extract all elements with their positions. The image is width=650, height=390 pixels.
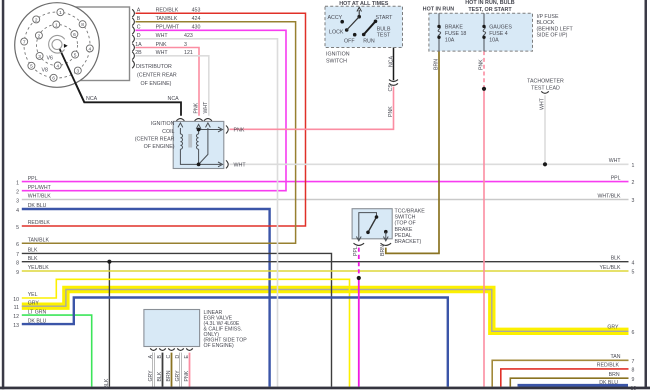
svg-text:5: 5 [74,53,77,59]
svg-text:423: 423 [184,33,193,39]
svg-text:START: START [376,15,394,21]
svg-text:4: 4 [16,208,19,214]
svg-text:(BEHIND LEFT: (BEHIND LEFT [537,26,574,32]
svg-text:HOT AT ALL TIMES: HOT AT ALL TIMES [339,1,389,7]
svg-text:10A: 10A [445,38,455,44]
svg-text:7: 7 [632,359,635,365]
svg-text:4: 4 [88,46,91,52]
svg-text:6: 6 [52,76,55,82]
svg-text:GRY: GRY [607,325,619,331]
svg-text:SWITCH: SWITCH [326,59,347,65]
svg-text:YEL/BLK: YEL/BLK [599,265,621,271]
svg-text:DK BLU: DK BLU [599,380,618,386]
svg-text:PPL/WHT: PPL/WHT [28,185,52,191]
svg-text:ACCY: ACCY [328,15,343,21]
svg-text:HOT IN RUN, BULB: HOT IN RUN, BULB [465,0,515,6]
svg-text:BLOCK: BLOCK [537,20,555,26]
svg-text:PNK: PNK [184,370,190,381]
svg-text:SIDE OF I/P): SIDE OF I/P) [537,33,568,39]
svg-text:OF ENGINE): OF ENGINE) [144,144,175,150]
svg-text:WHT: WHT [609,158,622,164]
svg-text:(CENTER REAR: (CENTER REAR [135,137,175,143]
svg-text:YEL/BLK: YEL/BLK [28,265,50,271]
svg-text:1A: 1A [135,42,142,48]
svg-text:C: C [137,25,141,31]
svg-text:BRN: BRN [380,245,386,256]
svg-text:(CENTER REAR: (CENTER REAR [137,72,177,78]
svg-text:COIL: COIL [162,129,174,135]
svg-text:LOCK: LOCK [329,29,344,35]
svg-text:RED/BLK: RED/BLK [28,220,51,226]
svg-text:OF ENGINE): OF ENGINE) [141,81,172,87]
svg-text:1: 1 [632,163,635,169]
svg-text:PNK: PNK [388,106,394,117]
svg-text:LT GRN: LT GRN [28,309,47,315]
svg-text:DK BLU: DK BLU [28,318,47,324]
svg-text:13: 13 [13,323,19,329]
svg-text:PNK: PNK [478,59,484,70]
svg-text:E: E [184,355,190,359]
svg-text:D: D [137,33,141,39]
svg-text:1: 1 [59,10,62,16]
svg-text:(TOP OF: (TOP OF [395,221,417,227]
svg-text:2: 2 [632,180,635,186]
svg-text:WHT: WHT [539,97,545,110]
svg-text:2: 2 [38,33,41,39]
svg-text:WHT/BLK: WHT/BLK [597,193,621,199]
svg-text:BLK: BLK [611,256,621,262]
svg-text:2: 2 [16,190,19,196]
svg-text:FUSE 18: FUSE 18 [445,31,467,37]
svg-text:10A: 10A [489,38,499,44]
svg-text:C: C [166,355,172,359]
svg-text:NCA: NCA [86,96,98,102]
svg-text:IGNITION: IGNITION [326,51,350,57]
svg-text:GRY: GRY [148,370,154,382]
svg-text:NCA: NCA [168,96,180,102]
svg-text:DISTRIBUTOR: DISTRIBUTOR [136,64,172,70]
svg-text:BRAKE: BRAKE [395,227,413,233]
svg-text:A: A [148,355,154,359]
svg-text:IGNITION: IGNITION [151,121,175,127]
svg-text:V6: V6 [47,56,54,62]
svg-text:3: 3 [76,69,79,75]
svg-text:WHT: WHT [156,50,169,56]
svg-text:RED/BLK: RED/BLK [597,363,620,369]
svg-text:2B: 2B [135,50,142,56]
svg-text:V8: V8 [42,68,49,74]
svg-text:424: 424 [192,16,201,22]
svg-text:BLK: BLK [28,256,38,262]
svg-text:CS: CS [388,84,394,92]
svg-text:BRACKET): BRACKET) [395,239,422,245]
svg-text:8: 8 [16,261,19,267]
svg-text:PEDAL: PEDAL [395,233,412,239]
svg-text:WHT/BLK: WHT/BLK [28,194,52,200]
svg-text:1: 1 [16,180,19,186]
svg-text:9: 9 [16,270,19,276]
svg-text:9: 9 [632,377,635,383]
svg-text:PPL: PPL [611,175,621,181]
svg-text:10: 10 [13,297,19,303]
svg-text:7: 7 [16,252,19,258]
svg-text:5: 5 [16,225,19,231]
svg-text:3: 3 [632,198,635,204]
svg-text:430: 430 [192,25,201,31]
svg-text:SWITCH: SWITCH [395,215,416,221]
svg-text:453: 453 [192,8,201,14]
svg-text:1: 1 [55,22,58,28]
svg-text:4: 4 [632,260,635,266]
svg-text:HOT IN RUN: HOT IN RUN [423,7,455,13]
svg-text:TEST: TEST [377,32,391,38]
svg-text:8: 8 [632,368,635,374]
svg-text:FUSE 4: FUSE 4 [489,31,508,37]
svg-text:RED/BLK: RED/BLK [156,8,179,14]
svg-text:TEST, OR START: TEST, OR START [468,7,512,13]
svg-text:8: 8 [81,22,84,28]
svg-text:WHT: WHT [203,101,209,114]
svg-text:TAN/BLK: TAN/BLK [28,238,50,244]
svg-text:B: B [157,355,163,359]
svg-text:10: 10 [631,386,637,390]
svg-text:PNK: PNK [193,102,199,113]
svg-text:5: 5 [30,64,33,70]
svg-text:6: 6 [632,330,635,336]
svg-text:YEL: YEL [28,292,38,298]
svg-text:3: 3 [16,198,19,204]
svg-text:PNK: PNK [234,128,245,134]
svg-text:3: 3 [38,54,41,60]
svg-text:BRN: BRN [433,59,439,70]
svg-text:BLK: BLK [157,371,163,381]
svg-text:TAN: TAN [611,354,621,360]
svg-text:3: 3 [184,42,187,48]
svg-text:6: 6 [73,32,76,38]
svg-text:4: 4 [56,63,59,69]
svg-text:7: 7 [23,40,26,46]
svg-text:TEST LEAD: TEST LEAD [531,85,560,91]
svg-text:6: 6 [16,242,19,248]
svg-text:121: 121 [184,50,193,56]
svg-text:OF ENGINE): OF ENGINE) [204,343,235,349]
svg-text:PNK: PNK [156,42,167,48]
svg-text:2: 2 [35,17,38,23]
svg-text:GAUGES: GAUGES [489,24,512,30]
svg-text:WHT: WHT [156,33,169,39]
svg-text:GRY: GRY [175,370,181,382]
svg-text:OFF: OFF [344,39,355,45]
svg-text:I/P FUSE: I/P FUSE [537,14,559,20]
svg-text:D: D [175,355,181,359]
svg-text:NCA: NCA [388,56,394,67]
svg-text:GRY: GRY [28,300,40,306]
svg-text:12: 12 [13,314,19,320]
svg-text:BRAKE: BRAKE [445,24,463,30]
svg-text:PPL: PPL [28,176,38,182]
svg-text:BLK: BLK [104,378,110,388]
svg-text:11: 11 [14,305,19,311]
svg-text:BLK: BLK [28,248,38,254]
svg-text:RUN: RUN [363,39,375,45]
svg-text:WHT: WHT [234,163,247,169]
svg-text:BRN: BRN [166,370,172,381]
svg-text:TCC/BRAKE: TCC/BRAKE [395,209,426,215]
svg-text:TACHOMETER: TACHOMETER [527,79,564,85]
svg-text:5: 5 [632,270,635,276]
svg-text:PPL: PPL [353,246,359,256]
svg-text:DK BLU: DK BLU [28,203,47,209]
svg-text:TAN/BLK: TAN/BLK [156,16,178,22]
svg-text:BRN: BRN [609,372,620,378]
svg-text:PPL/WHT: PPL/WHT [156,25,180,31]
svg-text:B: B [137,16,141,22]
svg-text:A: A [137,8,141,14]
